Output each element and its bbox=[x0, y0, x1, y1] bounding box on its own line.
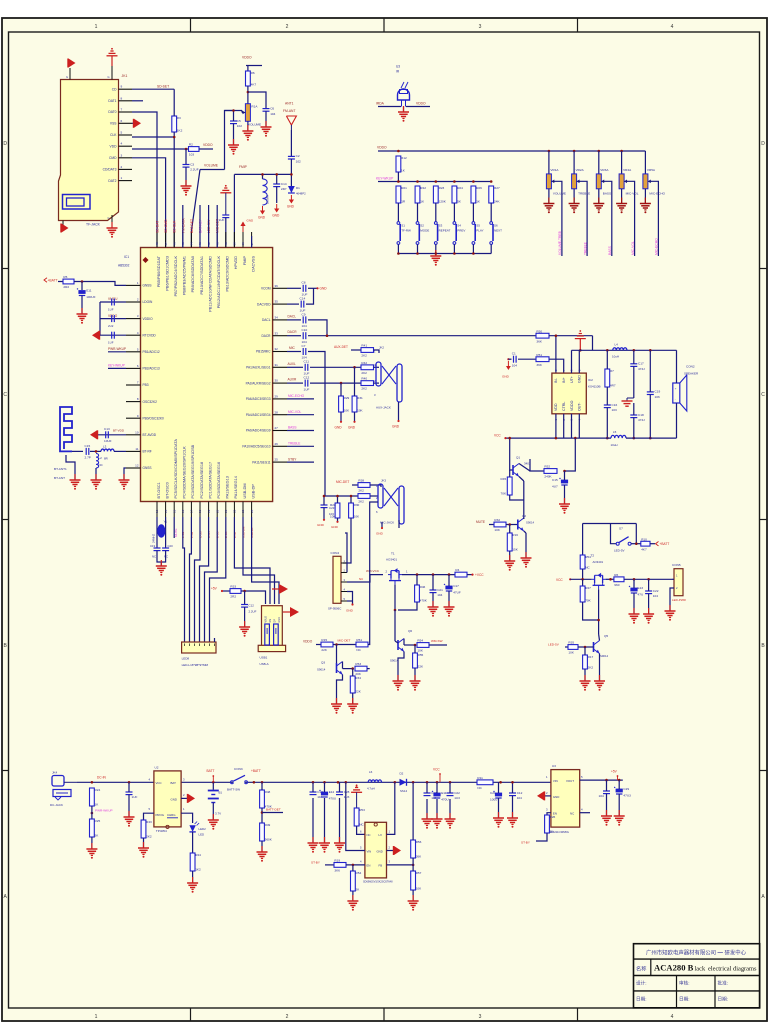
wire C22c gnd bbox=[648, 594, 650, 614]
svg-text:LED-5V: LED-5V bbox=[614, 549, 625, 553]
TF card slot icon bbox=[63, 195, 91, 210]
junction bbox=[597, 619, 600, 622]
wire bbox=[333, 644, 356, 646]
svg-text:PWR-WKUP: PWR-WKUP bbox=[95, 809, 113, 813]
svg-text:104: 104 bbox=[599, 794, 604, 798]
wire bbox=[648, 579, 650, 591]
svg-text:TREBLE: TREBLE bbox=[288, 442, 300, 446]
junction bbox=[412, 781, 415, 784]
wire bbox=[397, 244, 399, 253]
svg-text:Q1: Q1 bbox=[516, 456, 520, 460]
IC U1 pin 48 bbox=[155, 232, 161, 287]
resistor bbox=[433, 186, 446, 203]
border row ticks bbox=[2, 269, 767, 771]
capacitor bbox=[604, 403, 618, 412]
IC U1 pin 35 DACVDD bbox=[257, 300, 287, 307]
net label TREBLE bbox=[583, 241, 587, 255]
wire bbox=[524, 531, 526, 533]
svg-text:CON3: CON3 bbox=[234, 767, 243, 771]
wire bbox=[580, 181, 588, 256]
svg-text:24K: 24K bbox=[494, 199, 500, 203]
wire bbox=[352, 484, 358, 486]
IC U1 pin 16 bbox=[181, 446, 187, 517]
wire bbox=[347, 575, 383, 582]
resistor bbox=[417, 639, 429, 653]
svg-text:S9014: S9014 bbox=[317, 668, 326, 672]
wire bbox=[394, 585, 396, 610]
net label NC CON4 bbox=[359, 577, 363, 581]
wire bbox=[631, 543, 641, 545]
switch bbox=[616, 537, 631, 546]
svg-text:VOLUME: VOLUME bbox=[553, 191, 566, 195]
svg-text:E11: E11 bbox=[86, 289, 92, 293]
junction bbox=[414, 644, 417, 647]
label U5 part number bbox=[549, 830, 569, 834]
svg-text:PB6/PB1/SD1CMD3: PB6/PB1/SD1CMD3 bbox=[165, 256, 169, 291]
svg-text:C14: C14 bbox=[300, 297, 306, 301]
svg-text:FM-ANT: FM-ANT bbox=[283, 109, 295, 113]
wire bbox=[282, 611, 284, 613]
wire R57 gnd bbox=[412, 890, 414, 901]
svg-text:26K: 26K bbox=[416, 854, 422, 858]
svg-text:104: 104 bbox=[517, 796, 522, 800]
svg-text:GND: GND bbox=[348, 426, 356, 430]
ground bbox=[594, 675, 605, 691]
wire bbox=[670, 588, 674, 611]
wire Q2 emitter down bbox=[525, 533, 527, 558]
svg-text:S5: S5 bbox=[476, 224, 480, 228]
label VR4A bbox=[623, 168, 632, 172]
net label PWR-WKUP bbox=[108, 347, 126, 351]
svg-text:23: 23 bbox=[241, 509, 245, 513]
transistor bbox=[518, 518, 524, 531]
wire bbox=[91, 806, 93, 819]
net label STBY bbox=[288, 457, 297, 461]
junction bbox=[436, 781, 439, 784]
junction bbox=[261, 781, 264, 784]
IC U1 pin 20 bbox=[215, 462, 221, 517]
net label MIC-DET bbox=[216, 219, 220, 233]
wire bbox=[606, 780, 608, 791]
svg-text:Q3: Q3 bbox=[321, 661, 325, 665]
inductor bbox=[368, 780, 381, 782]
svg-text:PC2/SDDATA/SEG18: PC2/SDDATA/SEG18 bbox=[200, 462, 204, 499]
svg-text:47U: 47U bbox=[638, 592, 644, 596]
USB connector body bbox=[258, 606, 285, 652]
wire bbox=[77, 781, 551, 783]
svg-text:BAT-DET: BAT-DET bbox=[190, 219, 194, 233]
svg-text:KEY-WKUP: KEY-WKUP bbox=[108, 364, 125, 368]
CON4 pin 4 bbox=[341, 588, 347, 592]
wire bbox=[472, 244, 474, 253]
wire bbox=[336, 645, 338, 664]
ground bbox=[410, 675, 421, 691]
wire bbox=[262, 174, 264, 179]
svg-text:C12: C12 bbox=[304, 376, 310, 380]
svg-text:VR3A: VR3A bbox=[600, 168, 609, 172]
U2 pin numbers bbox=[149, 777, 186, 811]
svg-text:PB10/ADC7/SDDATA1: PB10/ADC7/SDDATA1 bbox=[200, 256, 204, 294]
svg-text:R35: R35 bbox=[568, 641, 574, 645]
wire bbox=[234, 173, 291, 175]
U5 pin names bbox=[553, 779, 574, 816]
resistor bbox=[536, 353, 549, 367]
junction bbox=[606, 349, 609, 352]
ground flag filter bbox=[622, 398, 634, 406]
svg-text:1K2: 1K2 bbox=[195, 867, 201, 871]
label AUX-JACK bbox=[376, 406, 391, 410]
wire bbox=[467, 574, 472, 576]
potentiometer bbox=[619, 174, 628, 189]
transistor Q1 3401 bbox=[513, 464, 519, 477]
svg-text:VCOM: VCOM bbox=[261, 287, 271, 291]
wire bbox=[489, 524, 494, 526]
TF socket label TF-JACK bbox=[86, 223, 101, 227]
labels S7 LED-5V bbox=[614, 527, 625, 553]
net label IRDA bbox=[376, 102, 385, 106]
capacitor bbox=[263, 106, 276, 115]
wire bbox=[74, 282, 126, 286]
wire bbox=[244, 591, 246, 604]
junction bbox=[394, 609, 397, 612]
label VR5A bbox=[647, 168, 656, 172]
title company name bbox=[646, 949, 747, 957]
svg-text:BAT: BAT bbox=[171, 781, 177, 785]
svg-text:GND: GND bbox=[320, 287, 328, 291]
wire to crystal ground bbox=[160, 562, 162, 566]
svg-text:PA4/ADC1/SEG4: PA4/ADC1/SEG4 bbox=[246, 413, 271, 417]
IC U1 pin 18 bbox=[198, 462, 204, 517]
svg-text:2U2: 2U2 bbox=[108, 324, 114, 328]
wire bbox=[398, 253, 491, 255]
wire bbox=[325, 495, 358, 497]
LED module LED1 body bbox=[182, 642, 216, 653]
wire bbox=[357, 826, 365, 834]
capacitor bbox=[512, 352, 517, 368]
junction bbox=[353, 366, 356, 369]
svg-text:批准:: 批准: bbox=[718, 980, 728, 987]
wire bbox=[287, 335, 301, 337]
electrolytic capacitor bbox=[444, 584, 461, 595]
label TREBLE bbox=[578, 191, 590, 195]
svg-text:26: 26 bbox=[275, 442, 279, 446]
wire C18 to rail bbox=[633, 418, 635, 439]
svg-text:C15: C15 bbox=[85, 444, 91, 448]
svg-text:28: 28 bbox=[275, 410, 279, 414]
svg-text:SD-SET: SD-SET bbox=[157, 85, 169, 89]
wire bbox=[518, 358, 536, 360]
svg-text:TF-JACK: TF-JACK bbox=[86, 223, 101, 227]
resistor R11 bbox=[477, 776, 493, 790]
svg-text:GND: GND bbox=[258, 216, 266, 220]
svg-text:DACVSS: DACVSS bbox=[251, 256, 255, 272]
svg-text:R57: R57 bbox=[416, 871, 422, 875]
wire bbox=[199, 205, 201, 248]
svg-text:LED8: LED8 bbox=[182, 657, 190, 661]
resistor bbox=[349, 503, 360, 518]
power arrow flag bbox=[272, 584, 288, 594]
junction bbox=[453, 252, 456, 255]
svg-text:PB0/OSC32K0: PB0/OSC32K0 bbox=[143, 416, 164, 420]
svg-text:33: 33 bbox=[275, 331, 279, 335]
svg-text:R50: R50 bbox=[536, 329, 542, 333]
wire bbox=[387, 864, 414, 866]
wire bbox=[624, 578, 672, 580]
LED bbox=[189, 822, 199, 832]
power flag bbox=[351, 784, 362, 792]
ground bbox=[187, 877, 198, 893]
svg-text:C21: C21 bbox=[437, 588, 443, 592]
wire bbox=[276, 174, 278, 184]
IC U1 pin 25 PA11/SEG11 bbox=[252, 458, 287, 465]
net label GND pin36 bbox=[316, 287, 327, 291]
inductor bbox=[613, 348, 627, 351]
svg-text:BASS: BASS bbox=[603, 191, 611, 195]
wire bbox=[312, 782, 314, 792]
svg-text:WM-SW: WM-SW bbox=[431, 639, 443, 643]
ground bbox=[569, 198, 580, 214]
svg-text:104: 104 bbox=[512, 363, 517, 367]
svg-text:470U: 470U bbox=[441, 797, 448, 801]
IC U1 pin 41 bbox=[215, 232, 221, 308]
IC U1 pin 19 bbox=[207, 462, 213, 517]
svg-text:MIC-VOL: MIC-VOL bbox=[631, 241, 635, 255]
wire bbox=[132, 100, 143, 102]
svg-text:C29: C29 bbox=[623, 787, 629, 791]
svg-text:R25: R25 bbox=[95, 819, 101, 823]
junction bbox=[432, 573, 435, 576]
power arrow bbox=[394, 846, 402, 855]
wire bbox=[368, 502, 378, 645]
wire bbox=[367, 668, 370, 670]
svg-text:NC: NC bbox=[477, 786, 482, 790]
svg-text:C7: C7 bbox=[302, 344, 306, 348]
svg-text:36K: 36K bbox=[536, 339, 542, 343]
wire bbox=[548, 189, 550, 204]
svg-text:TREBLE: TREBLE bbox=[578, 191, 590, 195]
svg-text:100MH: 100MH bbox=[266, 195, 270, 204]
svg-text:PB15/MIC: PB15/MIC bbox=[256, 350, 271, 354]
wire bbox=[241, 111, 243, 113]
amplifier IC2 pin names bbox=[554, 375, 581, 411]
svg-text:9: 9 bbox=[121, 85, 123, 89]
junction bbox=[95, 450, 98, 453]
ground bbox=[629, 608, 640, 624]
svg-text:SD6960SV3/2K2SC6T648: SD6960SV3/2K2SC6T648 bbox=[363, 880, 393, 883]
potentiometer bbox=[546, 174, 555, 189]
wire C21 gnd bbox=[432, 593, 434, 607]
svg-text:20: 20 bbox=[215, 509, 219, 513]
wire bbox=[398, 520, 400, 528]
CON4 pin 2 bbox=[341, 569, 347, 573]
net label +5V bottom bbox=[611, 769, 618, 780]
junction bbox=[435, 180, 438, 183]
electrolytic capacitor bbox=[77, 288, 96, 299]
wire bbox=[290, 130, 292, 156]
IC U1 pin 30 PA2/AUXR/SEG2 bbox=[246, 379, 287, 386]
wire bbox=[95, 468, 97, 480]
ground bbox=[422, 813, 433, 829]
ground bbox=[643, 608, 654, 624]
junction bbox=[633, 578, 636, 581]
power arrow bbox=[92, 331, 100, 340]
wire bbox=[584, 647, 586, 655]
svg-text:BT-OSC0: BT-OSC0 bbox=[165, 482, 169, 498]
wire bbox=[598, 589, 600, 634]
svg-text:VDDO: VDDO bbox=[377, 145, 387, 149]
junction bbox=[426, 781, 429, 784]
wire bbox=[545, 795, 551, 797]
svg-text:C8: C8 bbox=[302, 281, 306, 285]
wire bbox=[417, 244, 419, 253]
capacitor C22 bbox=[241, 605, 248, 608]
svg-text:2.2UF: 2.2UF bbox=[190, 168, 199, 172]
svg-text:106: 106 bbox=[655, 395, 660, 399]
border zone numbers top bbox=[95, 24, 674, 30]
wire bbox=[649, 350, 651, 392]
svg-text:R32: R32 bbox=[494, 518, 500, 522]
wire R29 gnd bbox=[340, 412, 342, 421]
ground bbox=[319, 837, 330, 853]
svg-text:USB1: USB1 bbox=[260, 656, 268, 660]
svg-text:LED: LED bbox=[199, 833, 205, 837]
wire bbox=[509, 525, 511, 534]
svg-text:S1: S1 bbox=[401, 224, 405, 228]
power arrow bbox=[188, 794, 196, 803]
svg-text:AUX-JACK: AUX-JACK bbox=[376, 406, 391, 410]
junction bbox=[212, 781, 215, 784]
wire bbox=[310, 382, 361, 384]
svg-text:DM: DM bbox=[269, 619, 272, 623]
wire bbox=[173, 517, 175, 538]
svg-text:VR2A: VR2A bbox=[576, 168, 585, 172]
svg-text:R26: R26 bbox=[476, 186, 482, 190]
capacitor C10 bbox=[126, 792, 138, 799]
svg-text:NC: NC bbox=[570, 812, 574, 816]
net label BASS bbox=[288, 426, 297, 430]
svg-text:R46: R46 bbox=[420, 585, 426, 589]
resistor bbox=[361, 361, 374, 375]
net label VDDO q3 bbox=[303, 639, 313, 643]
wire bbox=[572, 349, 677, 351]
junction bbox=[397, 150, 400, 153]
labels D2 SS14 bbox=[400, 772, 408, 793]
wire bbox=[582, 524, 584, 556]
wire bbox=[261, 841, 263, 852]
wire bbox=[262, 812, 283, 814]
wire bbox=[132, 112, 157, 248]
svg-text:1UF: 1UF bbox=[304, 387, 310, 391]
svg-text:lack: lack bbox=[695, 966, 706, 973]
svg-text:GND: GND bbox=[376, 532, 384, 536]
svg-text:REPEAT: REPEAT bbox=[439, 229, 451, 233]
electrolytic C21 bbox=[490, 791, 502, 802]
svg-text:VDD: VDD bbox=[554, 403, 558, 411]
net label USB-DM bbox=[241, 526, 245, 538]
svg-text:C11: C11 bbox=[304, 360, 310, 364]
svg-text:2K2: 2K2 bbox=[588, 665, 594, 669]
net label VOLUME bbox=[204, 163, 219, 167]
svg-text:4: 4 bbox=[121, 142, 123, 146]
wire E13 gnd bbox=[633, 593, 635, 614]
ground bbox=[181, 180, 192, 196]
wire bbox=[287, 461, 314, 463]
IC U1 AB5302 body bbox=[141, 248, 273, 502]
inductor bbox=[101, 449, 114, 451]
capacitor bbox=[645, 589, 659, 598]
svg-text:T2: T2 bbox=[591, 554, 595, 558]
svg-text:15: 15 bbox=[172, 509, 176, 513]
resistor bbox=[339, 396, 350, 412]
wire bbox=[573, 151, 575, 174]
svg-text:IRDA: IRDA bbox=[376, 102, 385, 106]
svg-text:44: 44 bbox=[190, 242, 194, 246]
svg-text:31: 31 bbox=[275, 363, 279, 367]
wire bbox=[626, 437, 677, 439]
resistor bbox=[189, 143, 200, 157]
svg-text:1: 1 bbox=[95, 1014, 98, 1020]
svg-text:CON4: CON4 bbox=[331, 551, 340, 555]
svg-text:SP-9506C: SP-9506C bbox=[328, 607, 341, 611]
svg-text:GND: GND bbox=[553, 795, 559, 799]
svg-text:102: 102 bbox=[296, 160, 301, 164]
svg-text:D: D bbox=[761, 141, 765, 147]
ground bbox=[445, 813, 456, 829]
electrolytic C15 bbox=[552, 478, 568, 489]
svg-text:120K: 120K bbox=[439, 199, 447, 203]
wire R28 gnd bbox=[337, 518, 339, 521]
junction bbox=[472, 252, 475, 255]
capacitor bbox=[447, 791, 461, 800]
svg-text:OUT-: OUT- bbox=[578, 402, 582, 411]
wire bbox=[394, 610, 396, 637]
wire bbox=[287, 319, 301, 321]
svg-text:C22: C22 bbox=[454, 791, 460, 795]
ground bbox=[156, 560, 167, 576]
svg-text:DAT1: DAT1 bbox=[108, 99, 116, 103]
svg-text:10K: 10K bbox=[494, 528, 500, 532]
wire C17b to gnd bbox=[633, 366, 635, 398]
power arrow bbox=[90, 430, 98, 439]
inductor bbox=[96, 454, 99, 469]
wire bbox=[426, 782, 428, 793]
resistor R28 bbox=[330, 503, 340, 518]
power arrow bbox=[537, 791, 545, 800]
svg-text:GND: GND bbox=[392, 425, 400, 429]
wire bbox=[435, 203, 437, 222]
wire bbox=[627, 181, 635, 256]
ground bbox=[430, 250, 441, 266]
svg-text:18: 18 bbox=[198, 509, 202, 513]
resistor bbox=[396, 186, 407, 203]
TF pin 7 DAT0 bbox=[108, 108, 132, 115]
svg-text:R34: R34 bbox=[355, 676, 361, 680]
svg-text:14: 14 bbox=[164, 509, 168, 513]
wire bbox=[429, 644, 447, 646]
wire R34 gnd bbox=[352, 693, 354, 704]
svg-text:10K: 10K bbox=[416, 886, 422, 890]
wire bbox=[404, 644, 415, 646]
wire bbox=[606, 387, 608, 405]
junction bbox=[416, 180, 419, 183]
power arrow flag bbox=[283, 607, 299, 617]
svg-text:1UF: 1UF bbox=[132, 795, 138, 799]
svg-text:C10: C10 bbox=[302, 328, 308, 332]
svg-text:19: 19 bbox=[207, 509, 211, 513]
svg-text:GND: GND bbox=[578, 375, 582, 383]
wire bbox=[248, 92, 266, 109]
wire bbox=[394, 637, 396, 641]
